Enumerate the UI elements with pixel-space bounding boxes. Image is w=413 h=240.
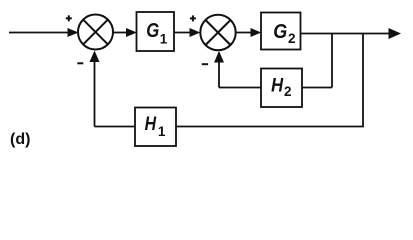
node plus sign summing junction 2 xyxy=(190,15,196,21)
wire H2 output to S2 xyxy=(214,51,261,88)
node minus sign at S2 xyxy=(202,63,208,65)
block G1 xyxy=(137,12,175,51)
wire tap A to H2 input xyxy=(302,87,332,89)
node minus sign at S1 xyxy=(77,62,83,64)
svg-text:H: H xyxy=(271,75,284,97)
node tap B on output to H1 xyxy=(362,34,364,127)
summing junction S1 xyxy=(78,15,113,50)
wire H1 output to S1 xyxy=(90,51,136,127)
wire output C(s) xyxy=(301,28,402,39)
node tap A on output to H2 xyxy=(331,34,333,88)
summing junction S2 xyxy=(200,15,235,50)
wire S2 to G2 xyxy=(236,28,262,37)
svg-text:G: G xyxy=(146,19,159,42)
svg-text:2: 2 xyxy=(288,31,296,46)
svg-text:(d): (d) xyxy=(10,131,30,148)
wire input R(s) xyxy=(9,28,79,37)
svg-text:1: 1 xyxy=(160,31,168,46)
block H2 xyxy=(261,69,302,108)
node plus sign summing junction 1 xyxy=(66,15,72,21)
svg-text:G: G xyxy=(273,20,287,43)
wire S1 to G1 xyxy=(113,28,137,37)
svg-text:H: H xyxy=(145,113,157,135)
svg-text:2: 2 xyxy=(284,84,292,99)
wire G1 to S2 xyxy=(174,28,200,37)
block G2 xyxy=(261,13,301,50)
svg-text:1: 1 xyxy=(158,124,166,139)
block H1 xyxy=(135,108,176,147)
wire tap B to H1 input xyxy=(176,126,364,128)
